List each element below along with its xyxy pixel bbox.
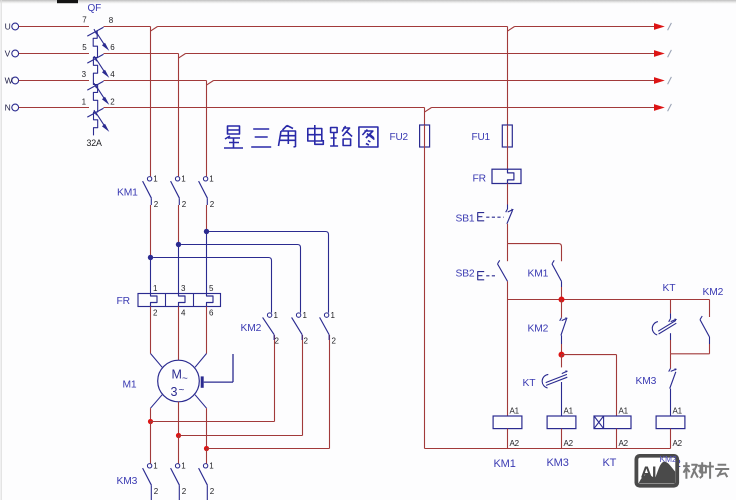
svg-text:1: 1 <box>209 461 214 470</box>
wire node V2 down to KM3 <box>178 436 180 464</box>
wire KT NC to join <box>670 340 672 354</box>
svg-text:1: 1 <box>153 174 158 183</box>
svg-text:A2: A2 <box>510 439 520 448</box>
svg-text:2: 2 <box>182 200 187 209</box>
wire node pole1 to FR <box>150 258 152 294</box>
svg-text:1: 1 <box>274 311 279 320</box>
coil KM3 <box>547 416 576 429</box>
wire SB1 to SB2 tee <box>507 224 509 244</box>
contactor KM3 main contact pole 2 <box>175 464 179 468</box>
wire KT contact to KM3 coil <box>561 389 563 416</box>
wire KT coil to rail <box>616 429 618 449</box>
svg-text:KT: KT <box>663 283 677 294</box>
title char 电 <box>308 125 324 144</box>
contactor KM2 main contact pole 1 <box>267 313 271 317</box>
svg-text:A1: A1 <box>619 406 629 415</box>
node rail junction (red) <box>559 297 565 303</box>
svg-text:2: 2 <box>154 487 159 496</box>
wire node pole1 to KM2 contact 1 <box>153 258 271 313</box>
svg-text:A1: A1 <box>510 406 520 415</box>
wire KM1 aux to rail node <box>561 287 563 300</box>
wire phase U line <box>19 26 89 28</box>
thermal relay FR heater pole 1 <box>151 294 158 307</box>
thermal relay FR heater pole 3 <box>207 294 214 307</box>
thermal relay FR box <box>138 294 221 307</box>
wire phase V line <box>19 53 89 55</box>
thermal relay FR control element <box>492 169 521 183</box>
contactor KM1 main contact pole 3 <box>203 177 207 181</box>
wire KM3 coil to rail <box>561 429 563 449</box>
svg-text:2: 2 <box>182 487 187 496</box>
wire phase V drop to KM1 <box>178 54 180 177</box>
wire N drop to FU2 <box>424 108 426 126</box>
contactor KM1 auxiliary NO contact <box>552 264 562 282</box>
wire bottom return rail <box>425 448 671 450</box>
svg-text:KM2: KM2 <box>528 324 549 335</box>
contactor KM2 auxiliary NO contact <box>709 300 711 318</box>
wire FU1 to FR contact <box>507 147 509 169</box>
start button SB2 (NO pushbutton) <box>507 244 509 262</box>
svg-text:1: 1 <box>209 174 214 183</box>
svg-text:32A: 32A <box>87 138 102 148</box>
svg-text:4: 4 <box>181 309 186 318</box>
wire motor lead bottom1 <box>151 395 163 409</box>
watermark char 云 <box>715 465 729 477</box>
fuse FU1 <box>502 125 512 147</box>
svg-text:V: V <box>5 49 11 59</box>
svg-text:1: 1 <box>82 97 87 106</box>
svg-text:M: M <box>172 368 182 382</box>
terminal N <box>12 104 19 111</box>
svg-text:M1: M1 <box>123 380 137 391</box>
svg-text:KM1: KM1 <box>494 458 516 470</box>
svg-text:KT: KT <box>603 457 617 469</box>
arrow line end 3 <box>654 77 665 84</box>
svg-text:U: U <box>5 22 11 32</box>
svg-text:FU2: FU2 <box>390 132 409 143</box>
svg-text:3: 3 <box>82 70 87 79</box>
node motor V2 (red) <box>176 433 181 438</box>
svg-text:FU1: FU1 <box>472 132 491 143</box>
wire phase W drop to KM1 <box>206 81 208 177</box>
wire FR pole1 to motor <box>150 307 152 354</box>
svg-text:~: ~ <box>182 374 188 385</box>
wire node U2 to KM2 contact1 bottom <box>151 421 275 423</box>
contactor KM3 main contact pole 3 <box>203 464 207 468</box>
svg-text:2: 2 <box>304 337 309 346</box>
wire jog U tap to FU1 <box>508 27 515 32</box>
wire control rail <box>508 299 710 301</box>
svg-text:1: 1 <box>181 174 186 183</box>
wire motor lead bottom3 <box>195 395 207 409</box>
wire jog V tap to KM1 <box>179 54 186 59</box>
wire node pole3 to FR <box>206 232 208 294</box>
svg-text:A2: A2 <box>564 439 574 448</box>
contactor KM2 NC interlock contact <box>561 300 563 318</box>
svg-text:KT: KT <box>523 378 537 389</box>
svg-text:KM2: KM2 <box>660 454 677 464</box>
wire parallel branch top <box>508 244 562 262</box>
arrow line end 2 <box>654 50 665 57</box>
svg-text:1: 1 <box>331 311 336 320</box>
svg-text:KM3: KM3 <box>117 476 138 487</box>
contactor KM2 main contact pole 3 <box>324 313 328 317</box>
svg-text:2: 2 <box>154 200 159 209</box>
stop button SB1 (NC pushbutton) <box>507 205 509 210</box>
svg-text:1: 1 <box>303 311 308 320</box>
svg-text:1: 1 <box>181 461 186 470</box>
breaker QF poles (blades, trip arrows) <box>87 27 103 36</box>
wire node pole2 to KM2 contact 2 <box>181 245 300 313</box>
svg-text:~: ~ <box>179 385 185 396</box>
svg-text:5: 5 <box>82 43 87 52</box>
svg-text:KM2: KM2 <box>241 323 262 334</box>
node KT branch junction (red) <box>559 352 565 358</box>
wire node pole3 to KM2 contact 3 <box>209 232 328 313</box>
wire FU2 to bottom rail <box>424 147 426 449</box>
wire node V2 to KM2 contact2 bottom <box>179 435 303 437</box>
wire SB2 to rail <box>507 281 509 299</box>
arrow line end 4 <box>654 104 665 111</box>
svg-text:FR: FR <box>117 296 130 307</box>
thermal relay FR heater pole 2 <box>179 294 186 307</box>
wire FR pole2 to motor <box>178 307 180 361</box>
svg-text:2: 2 <box>332 337 337 346</box>
wire phase U drop to KM1 <box>150 27 152 177</box>
svg-text:KM1: KM1 <box>117 188 138 199</box>
svg-text:3: 3 <box>171 385 178 399</box>
svg-text:5: 5 <box>209 284 214 293</box>
svg-text:FR: FR <box>473 174 486 185</box>
breaker QF linkage <box>93 31 98 136</box>
svg-text:W: W <box>5 76 13 86</box>
wire KM1 pole2 to node <box>178 205 180 245</box>
wire node U2 down to KM3 <box>150 422 152 464</box>
svg-text:A2: A2 <box>673 439 683 448</box>
wire KM1 pole1 to node <box>150 205 152 258</box>
svg-text:7: 7 <box>82 16 87 25</box>
terminal W <box>12 77 19 84</box>
wire FR pole3 to motor <box>206 307 208 354</box>
svg-text:QF: QF <box>88 3 102 14</box>
wire jog N tap to FU2 <box>425 108 432 113</box>
svg-text:6: 6 <box>110 43 115 52</box>
title char 星 <box>224 126 243 148</box>
svg-text:6: 6 <box>209 309 214 318</box>
svg-text:SB1: SB1 <box>456 214 475 225</box>
wire motor lead bottom2 <box>178 402 180 436</box>
svg-text:8: 8 <box>109 16 114 25</box>
fuse FU2 <box>420 125 430 147</box>
wire KM1 pole3 to node <box>206 205 208 232</box>
wire U drop to FU1 <box>507 27 509 126</box>
svg-text:SB2: SB2 <box>456 269 475 280</box>
svg-text:4: 4 <box>110 70 115 79</box>
svg-text:2: 2 <box>275 337 280 346</box>
wire rail to KM1 coil <box>507 300 509 417</box>
wire KM2 coil to rail <box>670 429 672 449</box>
svg-text:2: 2 <box>210 487 215 496</box>
coil KM2 <box>656 416 685 429</box>
node junction pole1 (blue) <box>148 255 153 260</box>
title char 三 <box>251 129 271 147</box>
title char 角 <box>279 126 296 148</box>
svg-text:KM3: KM3 <box>636 376 657 387</box>
terminal U <box>12 23 19 30</box>
wire FR to SB1 <box>507 184 509 205</box>
svg-text:1: 1 <box>153 461 158 470</box>
watermark logo <box>635 454 680 488</box>
node junction pole2 (blue) <box>176 242 181 247</box>
svg-text:KM1: KM1 <box>528 269 549 280</box>
node junction pole3 (blue) <box>204 229 209 234</box>
coil KT (time relay) <box>594 416 631 429</box>
terminal V <box>12 50 19 57</box>
wire node to KT coil <box>562 354 617 356</box>
svg-text:2: 2 <box>153 309 158 318</box>
node motor W2 (red) <box>204 446 209 451</box>
svg-text:2: 2 <box>110 98 115 107</box>
time relay KT delay-open NC contact <box>670 300 672 314</box>
node motor U2 (red) <box>148 419 153 424</box>
motor M1 shaft / PE lead <box>201 376 204 387</box>
svg-text:A1: A1 <box>564 406 574 415</box>
svg-text:AI: AI <box>641 464 657 481</box>
wire jog U tap to KM1 <box>151 27 158 32</box>
svg-text:KM2: KM2 <box>703 287 724 298</box>
svg-text:A2: A2 <box>619 439 629 448</box>
wire phase W line <box>19 80 89 82</box>
svg-text:1: 1 <box>153 284 158 293</box>
svg-text:2: 2 <box>210 200 215 209</box>
svg-text:KM3: KM3 <box>547 457 569 469</box>
wire KM2 aux to join <box>709 344 711 354</box>
contactor KM3 NC interlock contact <box>670 354 672 369</box>
svg-text:N: N <box>5 103 11 113</box>
contactor KM3 main contact pole 1 <box>147 464 151 468</box>
wire node W2 to KM2 contact3 bottom <box>207 448 330 450</box>
motor M1 (3-phase) <box>158 360 200 402</box>
contactor KM2 main contact pole 2 <box>296 313 300 317</box>
wire KM1 coil to rail <box>507 429 509 449</box>
arrow line end 1 <box>654 23 665 30</box>
time relay KT delay-close NO contact <box>561 355 563 368</box>
wire node W2 down to KM3 <box>206 449 208 464</box>
wire jog W tap to KM1 <box>207 81 214 86</box>
watermark char 树 <box>683 462 729 479</box>
wire node pole2 to FR <box>178 245 180 294</box>
title char 路 <box>330 126 352 146</box>
wire phase N line <box>19 107 89 109</box>
coil KM1 <box>493 416 522 429</box>
wire KM2 interlock to node <box>561 344 563 355</box>
contactor KM1 main contact pole 1 <box>147 177 151 181</box>
contactor KM1 main contact pole 2 <box>175 177 179 181</box>
title char 图 <box>359 127 378 147</box>
svg-text:3: 3 <box>181 284 186 293</box>
svg-text:A1: A1 <box>673 406 683 415</box>
watermark char 叶 <box>701 462 714 479</box>
